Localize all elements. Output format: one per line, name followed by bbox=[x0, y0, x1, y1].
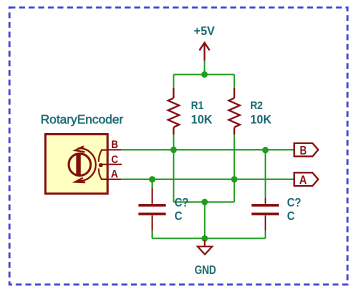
svg-text:A: A bbox=[111, 169, 118, 181]
wire cap2 bottom bbox=[264, 231, 266, 239]
pin B bbox=[108, 149, 122, 151]
connector A bbox=[294, 173, 318, 186]
node R1/B junction bbox=[170, 147, 176, 153]
node gnd junction bbox=[202, 235, 208, 241]
wire net A bbox=[121, 178, 294, 180]
wire middle rail bbox=[174, 201, 235, 203]
resistor R1 bbox=[168, 88, 179, 135]
svg-text:A: A bbox=[299, 174, 307, 187]
svg-text:RotaryEncoder: RotaryEncoder bbox=[41, 113, 124, 127]
wire cap2 top bbox=[264, 150, 266, 198]
pin C bbox=[108, 163, 122, 165]
node R2/A junction bbox=[231, 176, 237, 182]
svg-text:10K: 10K bbox=[191, 113, 213, 126]
svg-text:R2: R2 bbox=[250, 100, 263, 112]
capacitor C2 bbox=[252, 198, 279, 231]
wire bottom rail bbox=[152, 237, 265, 239]
svg-text:C: C bbox=[111, 154, 118, 166]
svg-text:+5V: +5V bbox=[194, 24, 215, 38]
capacitor C1 bbox=[138, 188, 165, 231]
wire +5V stem bbox=[204, 61, 206, 75]
wire middle to gnd bbox=[204, 202, 206, 238]
wire R1 bottom to B net bbox=[173, 135, 175, 150]
encoder knob slot bbox=[76, 154, 81, 175]
connector B bbox=[294, 143, 318, 156]
encoder SW1 body bbox=[45, 134, 107, 194]
wire B junction down bbox=[173, 150, 175, 202]
wire net B bbox=[121, 149, 294, 151]
resistor R2 bbox=[229, 88, 240, 135]
power flag +5V bbox=[199, 43, 209, 61]
svg-text:C?: C? bbox=[287, 196, 301, 209]
wire R2 top bbox=[233, 75, 235, 88]
node cap2/B junction bbox=[262, 147, 268, 153]
svg-text:C: C bbox=[287, 210, 295, 223]
node cap1/A junction bbox=[149, 176, 155, 182]
encoder wiper dot bbox=[99, 163, 103, 167]
wire cap1 top bbox=[151, 179, 153, 188]
wire cap1 bottom bbox=[151, 231, 153, 239]
encoder contact bracket bbox=[99, 150, 107, 162]
pin A bbox=[108, 178, 122, 180]
encoder arrow bottom bbox=[75, 178, 85, 183]
wire top rail bbox=[174, 74, 235, 76]
svg-text:GND: GND bbox=[195, 263, 217, 277]
encoder arrow top bbox=[75, 146, 84, 152]
encoder knob circle bbox=[69, 154, 91, 176]
node middle junction bbox=[202, 199, 208, 205]
wire R2 bottom to A net bbox=[233, 135, 235, 180]
svg-text:R1: R1 bbox=[191, 100, 204, 112]
ground bbox=[198, 240, 213, 254]
wire R1 top bbox=[173, 75, 175, 88]
svg-text:C?: C? bbox=[175, 196, 189, 209]
node +5V junction bbox=[201, 71, 207, 77]
svg-text:B: B bbox=[111, 139, 118, 151]
encoder rotation arc bbox=[78, 148, 96, 181]
svg-text:B: B bbox=[300, 144, 307, 157]
wire A junction down bbox=[233, 179, 235, 202]
svg-text:C: C bbox=[175, 210, 183, 223]
svg-text:10K: 10K bbox=[250, 113, 272, 126]
